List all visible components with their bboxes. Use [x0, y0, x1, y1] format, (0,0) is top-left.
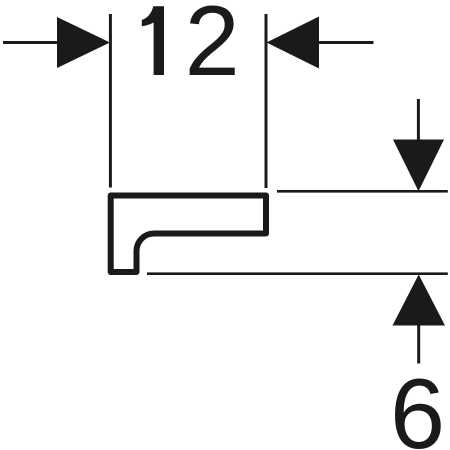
wire: left arrow tail [3, 41, 58, 44]
arrowhead left (points right) [57, 17, 110, 68]
wire: right arrow tail [319, 41, 374, 44]
svg-text:6: 6 [390, 358, 445, 450]
wire: up arrow tail [417, 325, 420, 364]
extension line top of dimension 6 [277, 190, 448, 193]
profile cross-section outline [111, 196, 266, 273]
dimension label 12: digit 1 (no foot serif) [142, 6, 164, 75]
extension line left of dimension 12 [109, 14, 112, 188]
arrowhead up [393, 275, 446, 326]
extension line right of dimension 12 [265, 14, 268, 188]
wire: down arrow tail [417, 99, 420, 140]
extension line bottom of dimension 6 [147, 272, 448, 275]
arrowhead down [393, 140, 444, 192]
arrowhead right (points left) [267, 17, 320, 69]
svg-text:2: 2 [185, 0, 240, 96]
